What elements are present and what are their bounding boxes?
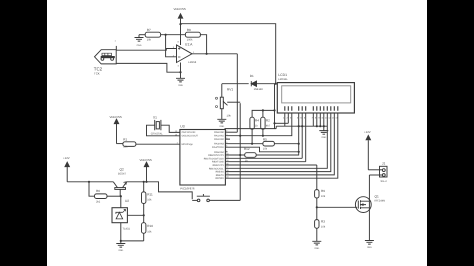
svg-text:RA2/AN2: RA2/AN2	[214, 138, 224, 141]
svg-text:OSC2/CLKOUT: OSC2/CLKOUT	[182, 135, 199, 138]
svg-text:GND: GND	[219, 125, 224, 128]
svg-text:Q1: Q1	[375, 195, 379, 199]
svg-text:10k: 10k	[321, 226, 326, 229]
svg-text:R8: R8	[187, 28, 191, 32]
svg-text:10k: 10k	[227, 115, 232, 118]
svg-text:+12V: +12V	[364, 130, 371, 134]
svg-text:R9: R9	[321, 189, 325, 193]
svg-text:10k: 10k	[123, 145, 128, 148]
svg-text:R4: R4	[255, 118, 259, 122]
svg-text:RB5/SS: RB5/SS	[216, 171, 225, 174]
svg-text:1: 1	[115, 39, 117, 42]
svg-text:+12V: +12V	[63, 156, 70, 160]
svg-text:TCK: TCK	[94, 72, 100, 76]
svg-text:8: 8	[178, 40, 180, 43]
svg-text:R10: R10	[147, 224, 153, 228]
svg-text:R3: R3	[321, 220, 325, 224]
svg-text:IRFZ44N: IRFZ44N	[375, 199, 386, 202]
svg-text:R1: R1	[123, 138, 127, 142]
svg-text:R7: R7	[147, 28, 151, 32]
svg-text:R2: R2	[266, 118, 270, 122]
svg-text:10k: 10k	[147, 39, 152, 42]
svg-text:2k2: 2k2	[96, 200, 101, 203]
svg-text:RA3/AN3: RA3/AN3	[214, 143, 224, 146]
svg-text:4: 4	[226, 136, 227, 139]
svg-text:RA1/AN1: RA1/AN1	[214, 135, 224, 138]
svg-text:MCLR/Vpp: MCLR/Vpp	[182, 143, 194, 146]
svg-text:BC547: BC547	[118, 172, 126, 175]
svg-text:X1: X1	[153, 115, 157, 119]
svg-text:RA4/T0CKI: RA4/T0CKI	[212, 146, 224, 149]
svg-text:LCD1: LCD1	[278, 73, 287, 77]
svg-text:SIL-2: SIL-2	[381, 180, 388, 183]
svg-text:33: 33	[226, 152, 228, 155]
svg-text:OSC1/CLKIN: OSC1/CLKIN	[182, 131, 196, 134]
svg-text:LM358: LM358	[188, 61, 196, 64]
svg-text:RA0/AN0: RA0/AN0	[214, 131, 224, 134]
svg-text:4: 4	[178, 65, 180, 68]
svg-text:GND: GND	[367, 246, 372, 249]
svg-text:J1: J1	[382, 161, 386, 165]
svg-text:U2: U2	[125, 199, 129, 203]
svg-text:R12: R12	[244, 147, 250, 151]
svg-text:38: 38	[226, 169, 228, 172]
svg-text:CRYSTAL: CRYSTAL	[151, 133, 163, 136]
svg-text:R6: R6	[96, 189, 100, 193]
svg-text:VDD/VSS: VDD/VSS	[110, 115, 122, 119]
svg-text:RB7/RX: RB7/RX	[215, 177, 224, 180]
svg-text:GND: GND	[314, 247, 319, 250]
svg-text:36: 36	[226, 162, 228, 165]
svg-text:GND: GND	[118, 249, 123, 252]
svg-text:TL431: TL431	[123, 227, 131, 230]
svg-text:GND: GND	[321, 136, 326, 139]
svg-text:D1: D1	[250, 74, 254, 78]
svg-text:5: 5	[226, 141, 227, 144]
svg-text:VDD/VSS: VDD/VSS	[174, 7, 186, 11]
svg-text:3: 3	[226, 133, 227, 136]
svg-text:10k: 10k	[263, 148, 268, 151]
svg-text:U3: U3	[180, 125, 184, 129]
svg-text:RB2/T1OSI: RB2/T1OSI	[212, 161, 224, 164]
svg-text:35: 35	[226, 159, 228, 162]
svg-text:10k: 10k	[147, 230, 152, 233]
svg-text:7: 7	[226, 149, 227, 152]
svg-text:1k: 1k	[255, 125, 258, 128]
svg-text:RB0/INT/CCP1: RB0/INT/CCP1	[208, 154, 224, 157]
svg-text:RA5/AN4: RA5/AN4	[214, 151, 224, 154]
svg-text:10k: 10k	[147, 199, 152, 202]
svg-text:RB1/T1OSO/T1CKI: RB1/T1OSO/T1CKI	[204, 157, 224, 160]
svg-text:100k: 100k	[187, 39, 193, 42]
svg-text:RB6/TX: RB6/TX	[216, 174, 225, 177]
svg-text:1N4148: 1N4148	[254, 88, 264, 91]
svg-text:39: 39	[226, 172, 228, 175]
svg-text:RB4/SCK/SCL: RB4/SCK/SCL	[209, 167, 225, 170]
svg-text:RB3/CCP1: RB3/CCP1	[213, 164, 225, 167]
svg-text:34: 34	[226, 156, 228, 159]
svg-text:PIC16F876: PIC16F876	[180, 187, 195, 191]
svg-text:10k: 10k	[321, 195, 326, 198]
svg-text:GND: GND	[178, 84, 183, 87]
svg-text:37: 37	[226, 166, 228, 169]
svg-text:2: 2	[226, 130, 227, 133]
svg-text:Q2: Q2	[120, 167, 124, 171]
svg-text:GND: GND	[137, 44, 142, 47]
svg-text:LM016L: LM016L	[278, 78, 288, 81]
svg-text:RV1: RV1	[227, 87, 233, 91]
svg-text:R5: R5	[263, 138, 267, 142]
svg-text:U1:A: U1:A	[185, 42, 193, 46]
svg-text:VDD/VSS: VDD/VSS	[140, 158, 152, 162]
svg-text:40: 40	[226, 176, 228, 179]
svg-text:4k7: 4k7	[266, 125, 271, 128]
svg-text:R11: R11	[147, 192, 153, 196]
svg-text:6: 6	[226, 145, 227, 148]
